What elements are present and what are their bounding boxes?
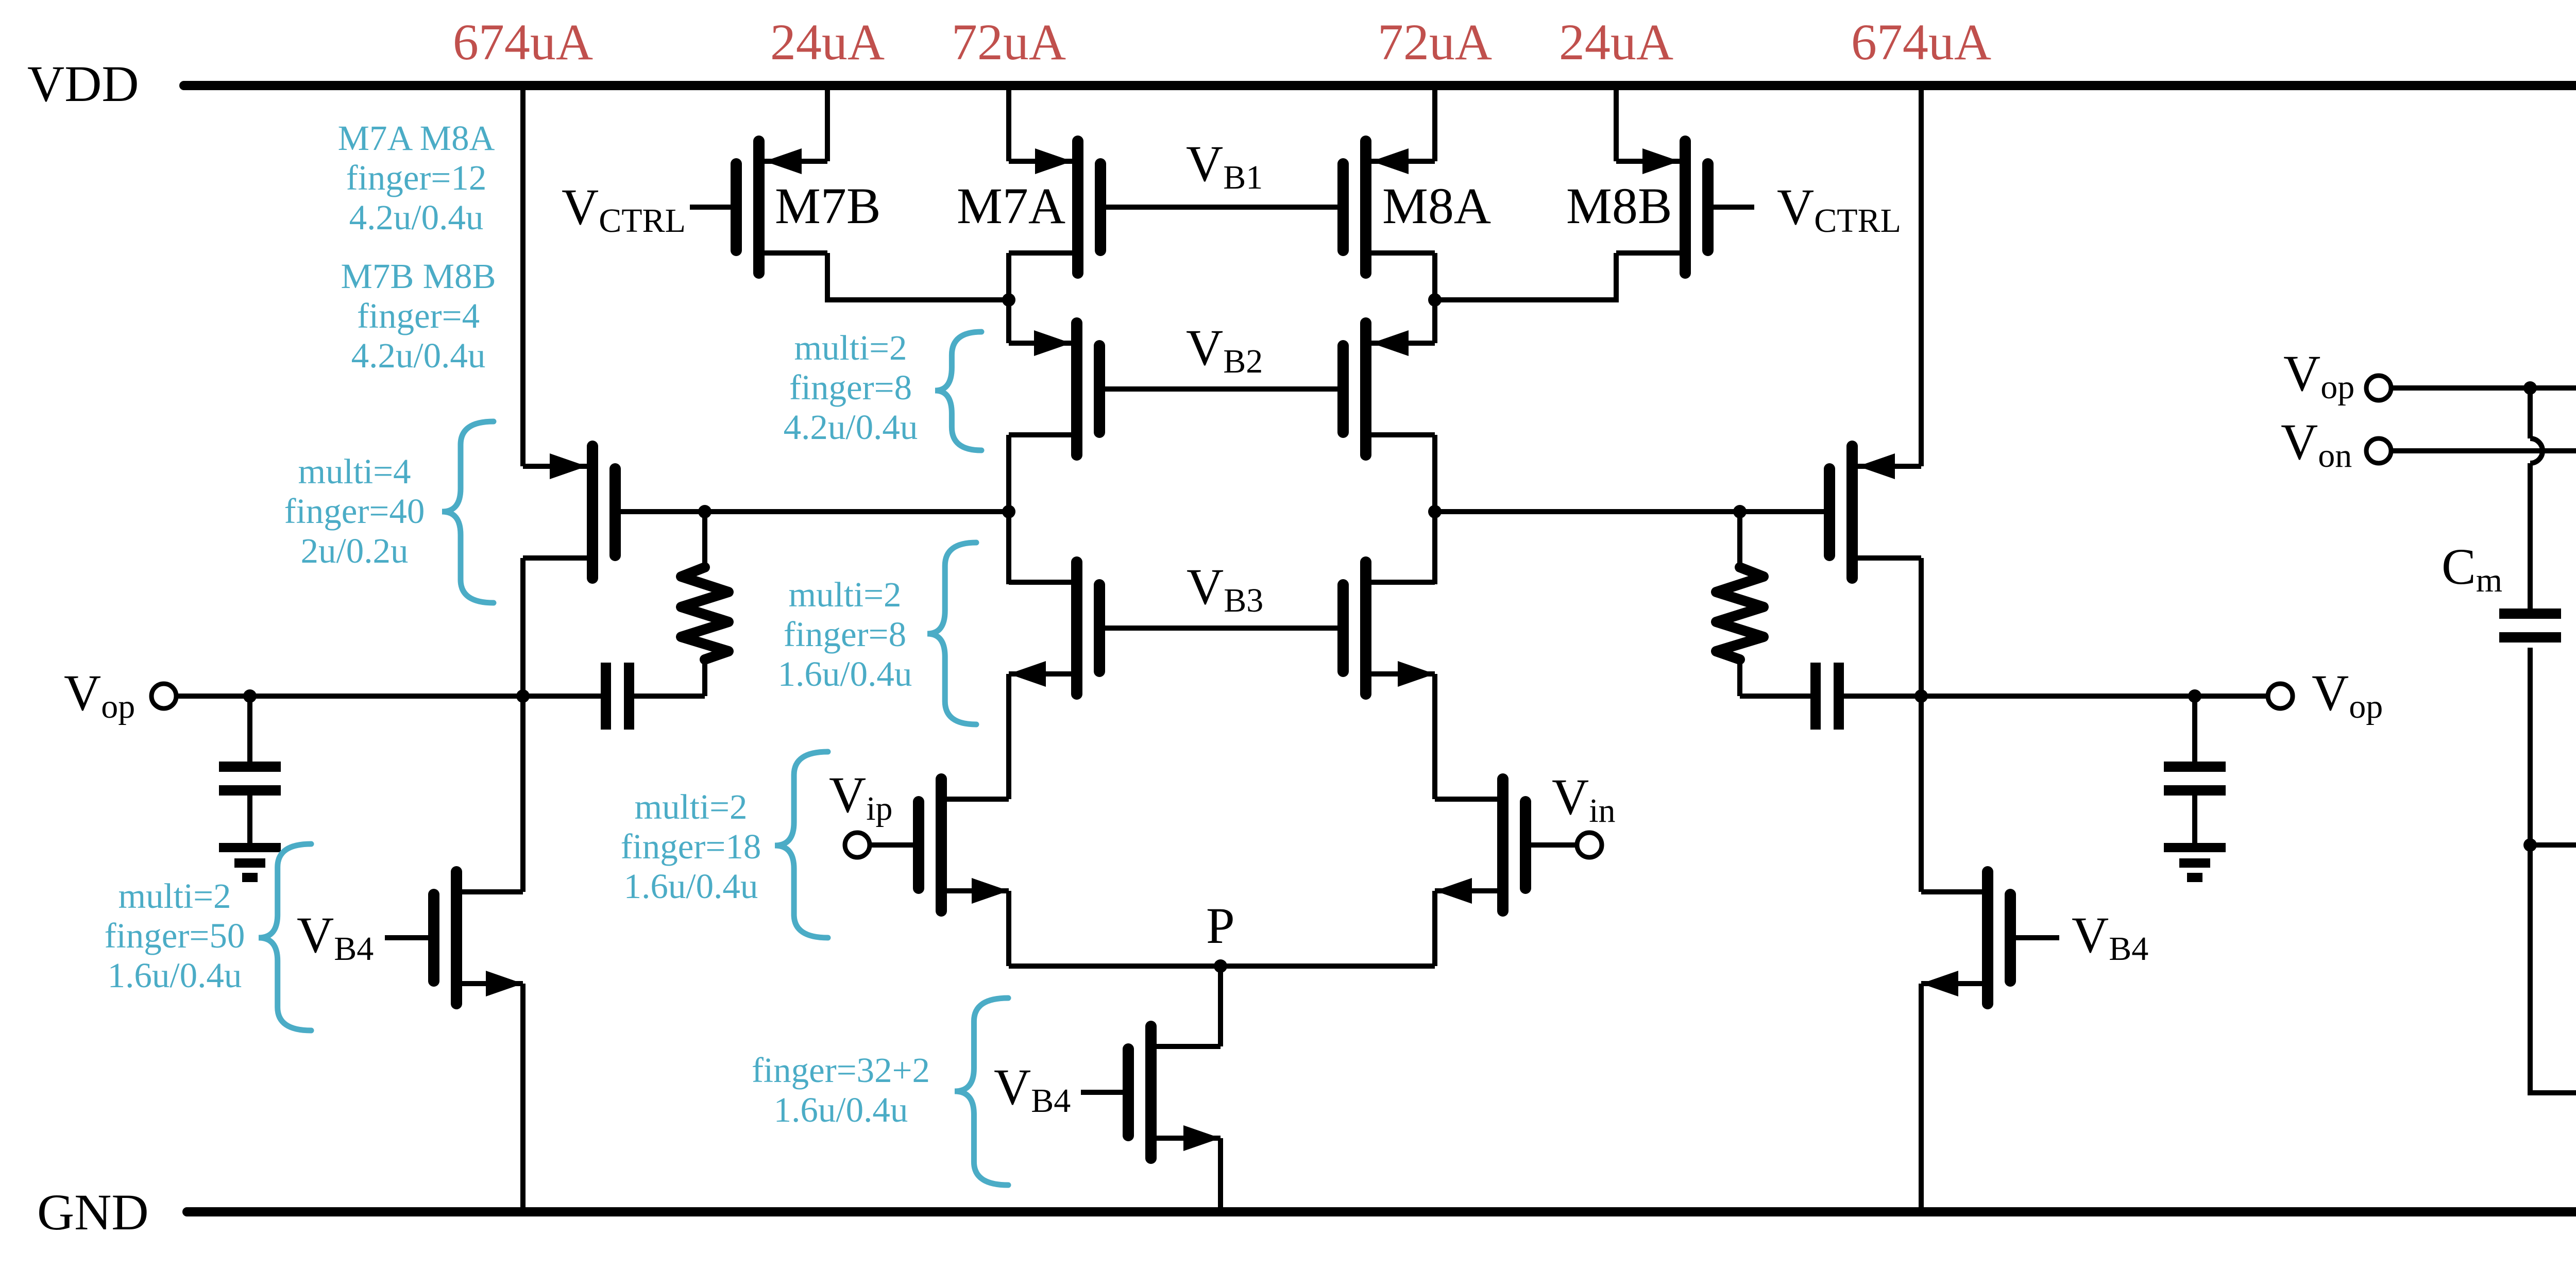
svg-text:finger=18: finger=18 bbox=[621, 827, 761, 866]
junction load cap right bbox=[2188, 689, 2201, 703]
wire VB3 gate wire bbox=[1099, 625, 1344, 631]
wire VB4L gate stub bbox=[385, 935, 434, 940]
capacitor Cm 1 bbox=[2499, 608, 2561, 619]
svg-text:finger=12: finger=12 bbox=[346, 158, 487, 197]
wire VDD to M8B source bbox=[1614, 86, 1619, 161]
label VB3 size bbox=[778, 575, 912, 694]
junction left output node bbox=[516, 689, 530, 703]
svg-text:multi=2: multi=2 bbox=[788, 575, 901, 614]
wire Vop line seg1 bbox=[2391, 385, 2576, 391]
label input pair size bbox=[621, 787, 761, 906]
svg-text:multi=4: multi=4 bbox=[298, 452, 411, 491]
label M7B M8B sizes bbox=[341, 257, 496, 375]
wire left gate node bbox=[615, 509, 1009, 514]
wire M8B gate stub bbox=[1708, 205, 1754, 210]
junction right gate node bbox=[1428, 505, 1442, 518]
svg-text:24uA: 24uA bbox=[1559, 13, 1673, 71]
svg-text:finger=4: finger=4 bbox=[357, 296, 480, 335]
wire Vip gate stub bbox=[870, 842, 919, 848]
wire Cm1 drop with hop bbox=[2530, 388, 2543, 614]
svg-text:M7A M8A: M7A M8A bbox=[338, 119, 495, 158]
junction M8 drains bbox=[1428, 293, 1442, 307]
wire tail node P bbox=[1009, 963, 1435, 969]
junction right RC tap bbox=[1733, 505, 1747, 518]
transistor input Vin bbox=[1435, 779, 1526, 911]
svg-text:1.6u/0.4u: 1.6u/0.4u bbox=[624, 867, 758, 906]
resistor Rz right bbox=[1716, 512, 1764, 696]
svg-text:finger=50: finger=50 bbox=[105, 916, 245, 955]
brace tail bbox=[955, 998, 1008, 1185]
wire VB2R drain down bbox=[1432, 435, 1437, 584]
wire M8A drain down bbox=[1432, 253, 1437, 343]
wire left output PMOS drain down bbox=[520, 558, 526, 892]
svg-text:M7A: M7A bbox=[957, 177, 1065, 234]
svg-text:674uA: 674uA bbox=[1851, 13, 1991, 71]
wire VDD to M7A source bbox=[1006, 86, 1011, 161]
brace VB3 bbox=[927, 543, 976, 724]
wire tail gate stub bbox=[1081, 1090, 1128, 1095]
wire VB2 gate wire bbox=[1099, 386, 1344, 392]
capacitor Cc left bbox=[606, 663, 629, 730]
wire cmfb feedback bbox=[2530, 845, 2576, 1093]
transistor tail VB4 bbox=[1128, 1026, 1221, 1158]
wire Vip source down bbox=[1006, 891, 1011, 966]
svg-text:2u/0.2u: 2u/0.2u bbox=[301, 531, 409, 570]
capacitor Cc right bbox=[1816, 663, 1839, 730]
svg-text:GND: GND bbox=[37, 1184, 149, 1241]
wire Vop right bbox=[1921, 694, 2268, 699]
svg-text:4.2u/0.4u: 4.2u/0.4u bbox=[349, 198, 484, 237]
label tail size bbox=[752, 1051, 930, 1129]
wire M7A drain down bbox=[1006, 253, 1011, 343]
wire VB1 gate wire bbox=[1100, 205, 1344, 210]
junction node P bbox=[1214, 959, 1227, 973]
transistor VB3 left bbox=[1009, 562, 1099, 694]
wire cap left lead bbox=[634, 694, 705, 699]
ground left bbox=[219, 843, 281, 852]
svg-text:finger=40: finger=40 bbox=[284, 492, 425, 531]
ground right bbox=[2164, 843, 2226, 852]
wire VDD to M7B source bbox=[825, 86, 830, 161]
svg-text:4.2u/0.4u: 4.2u/0.4u bbox=[351, 336, 486, 375]
junction left gate node bbox=[1002, 505, 1015, 518]
svg-text:M7B M8B: M7B M8B bbox=[341, 257, 496, 296]
transistor M8B bbox=[1616, 141, 1708, 273]
junction M7 drains bbox=[1002, 293, 1015, 307]
svg-text:multi=2: multi=2 bbox=[794, 328, 907, 367]
wire VDD to right output PMOS bbox=[1919, 86, 1924, 466]
wire VB4L source to GND bbox=[520, 984, 526, 1212]
svg-text:72uA: 72uA bbox=[1378, 13, 1492, 71]
junction bus Cm1 bbox=[2523, 838, 2537, 852]
capacitor CL right bbox=[2164, 696, 2226, 843]
transistor VB2 right bbox=[1343, 323, 1435, 455]
junction load cap left bbox=[243, 689, 257, 703]
wire right output PMOS drain down bbox=[1919, 558, 1924, 892]
brace VB2 bbox=[935, 332, 981, 450]
transistor right output PMOS bbox=[1829, 446, 1921, 578]
port Vip gate bbox=[845, 833, 870, 857]
wire VB4R gate stub bbox=[2010, 935, 2059, 940]
wire VB2L drain down bbox=[1006, 435, 1011, 584]
label VB2 size bbox=[784, 328, 918, 447]
port Vop cmfb bbox=[2366, 376, 2391, 400]
label M7A M8A sizes bbox=[338, 119, 495, 237]
wire cap right lead bbox=[1844, 694, 1921, 699]
port Von cmfb bbox=[2366, 438, 2391, 463]
svg-text:M8B: M8B bbox=[1566, 177, 1672, 234]
transistor VB3 right bbox=[1343, 562, 1435, 694]
svg-text:M7B: M7B bbox=[775, 177, 881, 234]
brace VB4 left bbox=[259, 844, 311, 1030]
wire M7B drain to node bbox=[827, 253, 1009, 300]
svg-text:674uA: 674uA bbox=[453, 13, 593, 71]
svg-text:1.6u/0.4u: 1.6u/0.4u bbox=[108, 956, 242, 995]
svg-text:72uA: 72uA bbox=[952, 13, 1066, 71]
transistor VB2 left bbox=[1009, 323, 1099, 455]
svg-text:finger=8: finger=8 bbox=[784, 615, 906, 654]
junction left RC tap bbox=[698, 505, 711, 518]
port Vop right bbox=[2268, 684, 2293, 708]
transistor M7A bbox=[1009, 141, 1100, 273]
port Vin gate bbox=[1577, 833, 1602, 857]
wire M8B source to node bbox=[1435, 253, 1616, 300]
wire VB3R source down bbox=[1432, 674, 1437, 799]
transistor input Vip bbox=[919, 779, 1009, 911]
wire bottom bus seg1 bbox=[2530, 842, 2576, 848]
wire P to tail drain bbox=[1218, 966, 1223, 1046]
wire right gate node bbox=[1435, 509, 1829, 514]
wire Von line seg1 bbox=[2391, 448, 2576, 453]
svg-text:VDD: VDD bbox=[27, 55, 139, 112]
junction Cm1 top bbox=[2523, 381, 2537, 395]
svg-text:1.6u/0.4u: 1.6u/0.4u bbox=[774, 1090, 908, 1129]
transistor M8A bbox=[1343, 141, 1435, 273]
brace input pair bbox=[775, 752, 828, 938]
wire VDD to left output PMOS bbox=[520, 86, 526, 466]
svg-text:finger=32+2: finger=32+2 bbox=[752, 1051, 930, 1090]
GND rail bbox=[187, 1207, 2576, 1216]
wire VDD to M8A source bbox=[1432, 86, 1437, 161]
junction right output node bbox=[1914, 689, 1928, 703]
svg-text:1.6u/0.4u: 1.6u/0.4u bbox=[778, 654, 912, 694]
svg-text:multi=2: multi=2 bbox=[118, 876, 231, 916]
svg-text:4.2u/0.4u: 4.2u/0.4u bbox=[784, 408, 918, 447]
capacitor CL left bbox=[219, 696, 281, 843]
VDD rail bbox=[184, 81, 2576, 90]
wire res right to cap bbox=[1740, 694, 1810, 699]
wire Vop left bbox=[176, 694, 601, 699]
svg-text:24uA: 24uA bbox=[770, 13, 885, 71]
svg-text:finger=8: finger=8 bbox=[789, 368, 912, 407]
label left output PMOS size bbox=[284, 452, 425, 570]
transistor VB4 right bbox=[1921, 872, 2010, 1004]
resistor Rz left bbox=[681, 512, 728, 696]
wire VB4R source to GND bbox=[1919, 984, 1924, 1212]
wire VB3L source down bbox=[1006, 674, 1011, 799]
svg-text:P: P bbox=[1206, 897, 1235, 954]
wire tail source to GND bbox=[1218, 1138, 1223, 1212]
port Vop left bbox=[151, 684, 176, 708]
wire M7B gate stub bbox=[690, 205, 736, 210]
brace left output PMOS bbox=[442, 421, 494, 603]
label VB4 left size bbox=[105, 876, 245, 995]
svg-text:multi=2: multi=2 bbox=[634, 787, 747, 826]
transistor left output PMOS bbox=[523, 446, 615, 578]
transistor M7B bbox=[736, 141, 827, 273]
wire Cm1 bottom lead bbox=[2528, 648, 2533, 845]
transistor VB4 left bbox=[434, 872, 523, 1004]
svg-text:M8A: M8A bbox=[1382, 177, 1491, 234]
wire Vin gate stub bbox=[1526, 842, 1577, 848]
wire Vin source down bbox=[1432, 891, 1437, 966]
